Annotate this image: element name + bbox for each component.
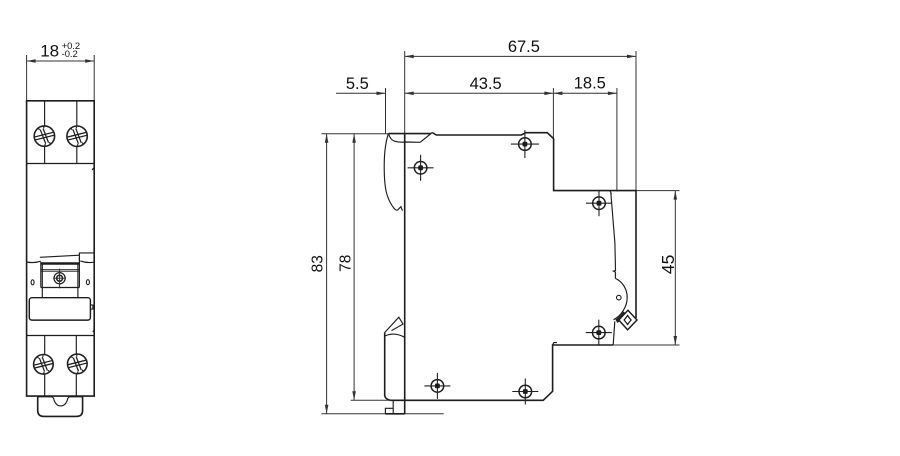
handle stem right bbox=[77, 288, 79, 298]
side view top and right outline bbox=[432, 133, 636, 319]
handle recess left wing bbox=[27, 261, 41, 262]
side view bottom right corner notch bbox=[553, 343, 557, 345]
dimension 5.5 tail line bbox=[336, 92, 386, 94]
toggle handle front edge bbox=[611, 193, 616, 279]
side view bottom edge bbox=[390, 345, 613, 400]
dimension 18 +0.2/-0.2 line bbox=[27, 60, 95, 62]
upper DIN clip hook inner edge and top ledge bbox=[389, 135, 420, 143]
dimension 83 extension bottom bbox=[322, 413, 444, 415]
handle window bottom bbox=[41, 287, 80, 289]
screw head 1 bbox=[32, 126, 56, 147]
bottom DIN slider notch arc bbox=[38, 397, 83, 406]
dimension 18.5 right extension bbox=[616, 88, 618, 192]
handle window left side outer bbox=[40, 262, 42, 288]
side view top ledge chamfer bbox=[420, 133, 432, 143]
DIN foot bottom bbox=[385, 413, 404, 415]
handle stem left bbox=[41, 288, 43, 298]
toggle pivot hole bbox=[617, 295, 622, 300]
dimension 78 extension bottom bbox=[351, 399, 390, 401]
svg-text:5.5: 5.5 bbox=[346, 75, 369, 93]
front view body outline bbox=[27, 101, 95, 396]
bottom DIN slider tab bbox=[38, 396, 83, 416]
dimension 83 line bbox=[326, 134, 328, 414]
handle window left side inner bbox=[41, 265, 43, 288]
dimension 78 line bbox=[353, 134, 355, 401]
front view right edge tick upper bbox=[92, 168, 94, 170]
left side ellipse bbox=[31, 280, 34, 285]
DIN foot bbox=[385, 400, 404, 414]
dimension 43.5 line bbox=[405, 92, 554, 94]
toggle handle face bbox=[29, 298, 90, 320]
rivet f bbox=[512, 379, 538, 405]
screw head 2 bbox=[65, 126, 89, 147]
svg-text:18: 18 bbox=[40, 41, 59, 60]
handle window right side outer bbox=[78, 257, 80, 288]
front view right edge tick lower bbox=[93, 330, 95, 331]
lower DIN clip curve bbox=[385, 334, 405, 337]
dimension 83 extension top bbox=[322, 133, 389, 135]
screw head 3 bbox=[32, 354, 56, 374]
dimension 67.5 line bbox=[405, 55, 636, 57]
lower DIN clip hook bbox=[385, 317, 403, 332]
toggle grip inner diamond bbox=[624, 316, 631, 325]
front view bottom terminal left divider bbox=[44, 336, 46, 397]
dimension 18 +0.2/-0.2 extension line left bbox=[26, 55, 28, 101]
dimension 18 +0.2/-0.2 extension line right bbox=[93, 55, 95, 101]
upper DIN clip outer edge bbox=[384, 134, 402, 211]
rivet a bbox=[408, 155, 434, 181]
dimension 43.5/18.5 shared extension bbox=[552, 88, 554, 138]
front view top terminal right divider bbox=[76, 101, 78, 164]
svg-text:78: 78 bbox=[338, 255, 355, 272]
toggle base edge bbox=[613, 321, 615, 345]
svg-text:45: 45 bbox=[658, 255, 678, 274]
right side ellipse bbox=[86, 280, 89, 285]
lower DIN clip leg bbox=[385, 333, 391, 401]
handle recess top slant bbox=[40, 255, 80, 257]
dimension 67.5 left extension bbox=[404, 51, 406, 134]
dimension 18.5 line bbox=[553, 92, 617, 94]
dimension 5.5 extension bbox=[385, 88, 387, 134]
toggle pivot boss arc bbox=[614, 278, 628, 319]
toggle grip serrations bbox=[616, 312, 624, 320]
rivet d bbox=[586, 320, 612, 346]
dimension 45 line bbox=[674, 191, 676, 345]
front view top terminal bottom line bbox=[27, 163, 95, 165]
side view top edge rear section bbox=[389, 133, 431, 135]
front view bottom terminal right divider bbox=[75, 336, 77, 397]
handle window second band upper bbox=[41, 269, 80, 271]
screw head 4 bbox=[65, 354, 89, 374]
svg-text:43.5: 43.5 bbox=[470, 75, 502, 93]
handle knob horizontal axis bbox=[53, 277, 66, 279]
handle knob vertical axis bbox=[59, 269, 61, 289]
handle recess right wing bbox=[80, 261, 94, 263]
rivet e bbox=[424, 373, 450, 399]
handle window dark band bbox=[41, 262, 80, 264]
handle window second band lower bbox=[41, 270, 80, 272]
rivet c bbox=[586, 190, 612, 216]
svg-text:67.5: 67.5 bbox=[508, 38, 540, 56]
front view top terminal left divider bbox=[44, 101, 46, 164]
handle knob outer circle bbox=[54, 273, 65, 284]
handle recess right ledge bbox=[79, 253, 94, 261]
dimension 45 extension top bbox=[636, 190, 680, 192]
dimension 45 extension bottom bbox=[613, 344, 679, 346]
svg-text:-0.2: -0.2 bbox=[62, 48, 78, 59]
svg-text:18.5: 18.5 bbox=[574, 75, 606, 93]
handle knob inner circle bbox=[57, 275, 63, 281]
toggle handle edge top wedge bbox=[609, 191, 612, 194]
rivet b bbox=[511, 130, 539, 158]
toggle handle right tab bbox=[90, 305, 93, 309]
svg-text:83: 83 bbox=[309, 255, 326, 272]
handle window right side inner bbox=[77, 265, 79, 288]
front view bottom terminal top line bbox=[27, 335, 95, 337]
toggle grip outer diamond bbox=[619, 310, 637, 330]
side view left edge bbox=[404, 134, 406, 414]
dimension 67.5 extension right bbox=[635, 51, 637, 191]
